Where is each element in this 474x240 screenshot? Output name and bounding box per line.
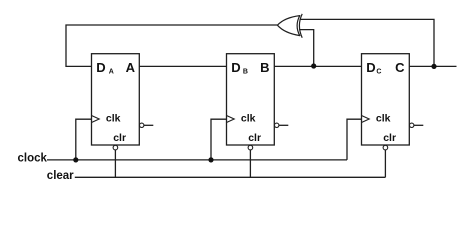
- svg-text:clk: clk: [241, 113, 256, 125]
- svg-text:clr: clr: [113, 132, 126, 144]
- svg-text:clr: clr: [248, 132, 261, 144]
- svg-text:D: D: [231, 60, 240, 75]
- svg-text:A: A: [126, 60, 136, 75]
- svg-text:A: A: [109, 69, 114, 76]
- svg-text:clear: clear: [47, 170, 74, 182]
- svg-text:B: B: [243, 69, 248, 76]
- svg-text:clk: clk: [106, 113, 121, 125]
- svg-text:D: D: [366, 60, 375, 75]
- svg-text:clk: clk: [376, 113, 391, 125]
- svg-text:C: C: [376, 69, 381, 76]
- svg-text:clr: clr: [383, 132, 396, 144]
- svg-text:C: C: [395, 60, 405, 75]
- svg-text:D: D: [96, 60, 105, 75]
- svg-text:clock: clock: [18, 152, 48, 164]
- svg-text:B: B: [260, 60, 269, 75]
